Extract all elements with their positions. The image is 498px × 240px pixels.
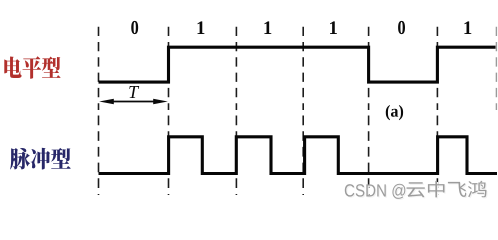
bit boundary dashed line 5 (top section) xyxy=(368,27,370,110)
bit value label "1" for interval 2 xyxy=(198,21,205,34)
bit boundary dashed line 1 (bottom section) xyxy=(98,116,100,196)
bit boundary dashed line 6 (bottom section) xyxy=(436,116,438,196)
bit value label "1" for interval 3 xyxy=(264,21,271,34)
bit boundary dashed line 5 (bottom section) xyxy=(368,116,370,196)
bit value label "1" for interval 6 xyxy=(464,21,471,34)
level-type (NRZ) waveform 电平型 xyxy=(99,47,496,82)
watermark 云中飞鸿 xyxy=(408,182,488,199)
bit value label "0" for interval 5 xyxy=(398,21,405,34)
bit boundary dashed line 6 (top section) xyxy=(436,27,438,110)
bit boundary dashed line 1 (top section) xyxy=(98,27,100,110)
watermark text CSDN @ xyxy=(346,185,406,200)
sub-figure label (a) xyxy=(386,105,403,120)
bit boundary dashed line 3 (bottom section) xyxy=(235,116,237,196)
bit value label "1" for interval 4 xyxy=(330,21,337,34)
bit boundary dashed line 4 (bottom section) xyxy=(302,116,304,196)
partial dashed line at right edge (top section) xyxy=(495,27,497,110)
bit-period dimension arrow (double-headed) xyxy=(106,101,161,103)
bit boundary dashed line 2 (top section) xyxy=(168,27,170,110)
label 电平型 (level type) xyxy=(4,56,60,78)
bit boundary dashed line 4 (top section) xyxy=(302,27,304,110)
bit boundary dashed line 2 (bottom section) xyxy=(168,116,170,196)
pulse-type (RZ) waveform 脉冲型 xyxy=(99,137,498,174)
period label T xyxy=(129,86,139,98)
label 脉冲型 (pulse type) xyxy=(10,148,71,170)
bit boundary dashed line 3 (top section) xyxy=(235,27,237,110)
bit value label "0" for interval 1 xyxy=(131,21,138,34)
